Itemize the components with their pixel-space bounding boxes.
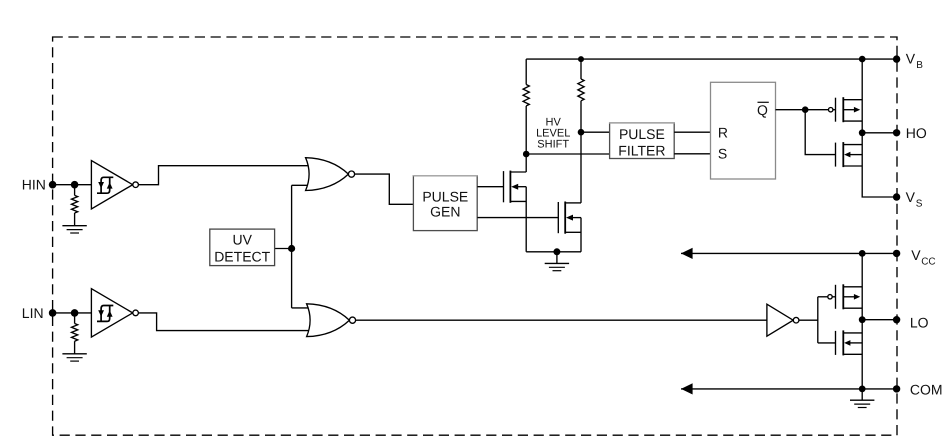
svg-text:GEN: GEN bbox=[430, 204, 460, 220]
svg-text:HO: HO bbox=[906, 125, 927, 141]
svg-text:PULSE: PULSE bbox=[619, 126, 665, 142]
svg-text:R: R bbox=[718, 125, 728, 141]
svg-text:UV: UV bbox=[232, 232, 252, 248]
svg-text:SHIFT: SHIFT bbox=[537, 138, 569, 150]
svg-text:HV: HV bbox=[546, 116, 562, 128]
svg-text:PULSE: PULSE bbox=[422, 188, 468, 204]
svg-text:S: S bbox=[718, 146, 727, 162]
svg-text:COM: COM bbox=[910, 381, 943, 397]
svg-text:FILTER: FILTER bbox=[618, 143, 665, 159]
svg-text:Q: Q bbox=[757, 102, 768, 118]
svg-text:S: S bbox=[916, 199, 923, 210]
svg-text:LO: LO bbox=[910, 314, 929, 330]
svg-text:V: V bbox=[906, 51, 916, 67]
svg-text:HIN: HIN bbox=[22, 177, 46, 193]
svg-text:B: B bbox=[916, 60, 923, 71]
svg-text:CC: CC bbox=[921, 257, 935, 268]
svg-text:LIN: LIN bbox=[22, 305, 44, 321]
svg-text:V: V bbox=[911, 247, 921, 263]
svg-text:DETECT: DETECT bbox=[214, 248, 270, 264]
svg-text:V: V bbox=[906, 189, 916, 205]
